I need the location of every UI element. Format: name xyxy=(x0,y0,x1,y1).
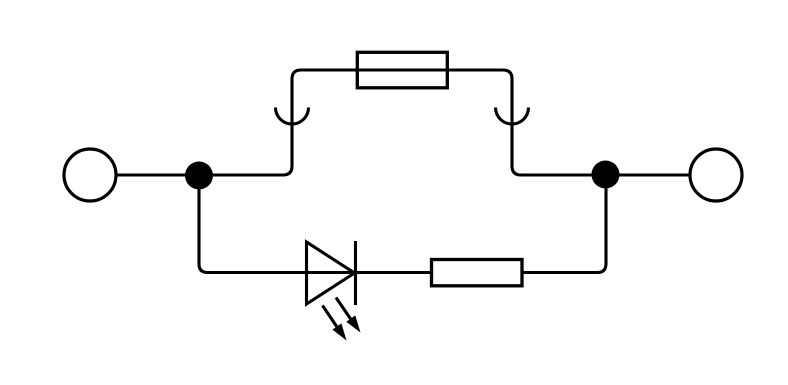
wire: left node up through fuse branch corner (top-left) xyxy=(199,70,357,175)
wire: left terminal to left node xyxy=(118,173,200,176)
LED D1 cathode bar xyxy=(354,241,357,305)
LED emission arrow 1 (left) xyxy=(323,306,347,341)
wire: through fuse to top-right corner xyxy=(355,70,605,175)
node A (left junction dot) xyxy=(185,162,213,190)
node B (right junction dot) xyxy=(592,161,620,189)
LED emission arrow 2 (right) xyxy=(336,298,361,333)
LED D1 triangle (anode) xyxy=(307,242,355,304)
terminal X2 (right circle) xyxy=(690,149,742,201)
wire: bottom branch corner up to right node xyxy=(598,175,607,273)
fuse-holder contact (left disconnect arc) xyxy=(276,108,309,125)
fuse F1 xyxy=(357,52,447,88)
wire: right node to right terminal xyxy=(606,173,691,176)
wire: left node down and across bottom branch xyxy=(199,175,598,273)
fuse-holder contact (right disconnect arc) xyxy=(496,108,529,125)
resistor R1 xyxy=(432,260,523,286)
terminal X1 (left circle) xyxy=(64,149,116,201)
